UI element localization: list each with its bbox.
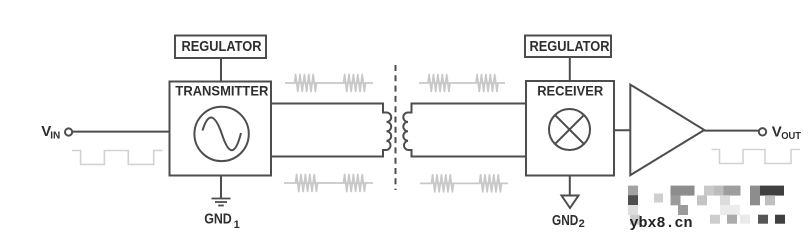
wire transmitter bottom output to transformer primary [271, 150, 387, 157]
parasitic choke top-left [285, 75, 373, 92]
label VIN [41, 123, 60, 142]
watermark text ybx8.cn [630, 215, 693, 232]
input square waveform [72, 151, 162, 165]
svg-text:REGULATOR: REGULATOR [182, 39, 262, 55]
node VOUT terminal [759, 128, 766, 135]
wire regulator U2 to receiver [569, 57, 571, 81]
svg-text:IN: IN [50, 130, 60, 141]
label VOUT [772, 124, 802, 142]
wire transformer secondary top to receiver [408, 104, 526, 113]
regulator U1 box [175, 36, 266, 59]
ground GND1 symbol [212, 199, 231, 206]
svg-text:1: 1 [234, 219, 240, 231]
oscillator symbol in transmitter [194, 107, 248, 161]
isolation barrier dashed line [395, 65, 397, 190]
label GND1 [204, 212, 240, 231]
wire transmitter to GND1 [220, 176, 222, 199]
transformer T1 secondary winding [403, 113, 408, 151]
wire receiver to GND2 [569, 176, 571, 196]
parasitic choke bottom-right [420, 175, 508, 192]
output square waveform [712, 150, 801, 164]
wire buffer amp to VOUT [704, 130, 759, 132]
parasitic choke bottom-left [284, 175, 373, 192]
wire VIN to transmitter [72, 131, 169, 133]
svg-text:2: 2 [579, 218, 585, 230]
label GND2 [552, 213, 585, 230]
transmitter block [170, 82, 272, 176]
parasitic choke top-right [419, 75, 505, 92]
regulator U2 box [525, 36, 611, 58]
svg-text:OUT: OUT [781, 130, 801, 142]
ground GND2 symbol [562, 196, 579, 209]
watermark mosaic blocks [628, 186, 785, 225]
wire transformer secondary bottom to receiver [408, 150, 526, 157]
receiver block [526, 81, 614, 176]
node VIN terminal [65, 128, 72, 135]
wire transmitter top output to transformer primary [271, 104, 387, 113]
demodulator mixer symbol in receiver [549, 109, 590, 150]
svg-text:ybx8.cn: ybx8.cn [630, 215, 693, 232]
svg-text:REGULATOR: REGULATOR [530, 39, 610, 55]
svg-text:GND: GND [204, 212, 232, 228]
transformer T1 primary winding [387, 113, 392, 151]
op-amp buffer A1 [630, 85, 704, 176]
svg-text:TRANSMITTER: TRANSMITTER [175, 83, 268, 99]
svg-text:GND: GND [552, 213, 578, 229]
svg-text:RECEIVER: RECEIVER [537, 83, 603, 98]
wire regulator U1 to transmitter [220, 58, 222, 82]
wire receiver to buffer amp [614, 129, 630, 131]
